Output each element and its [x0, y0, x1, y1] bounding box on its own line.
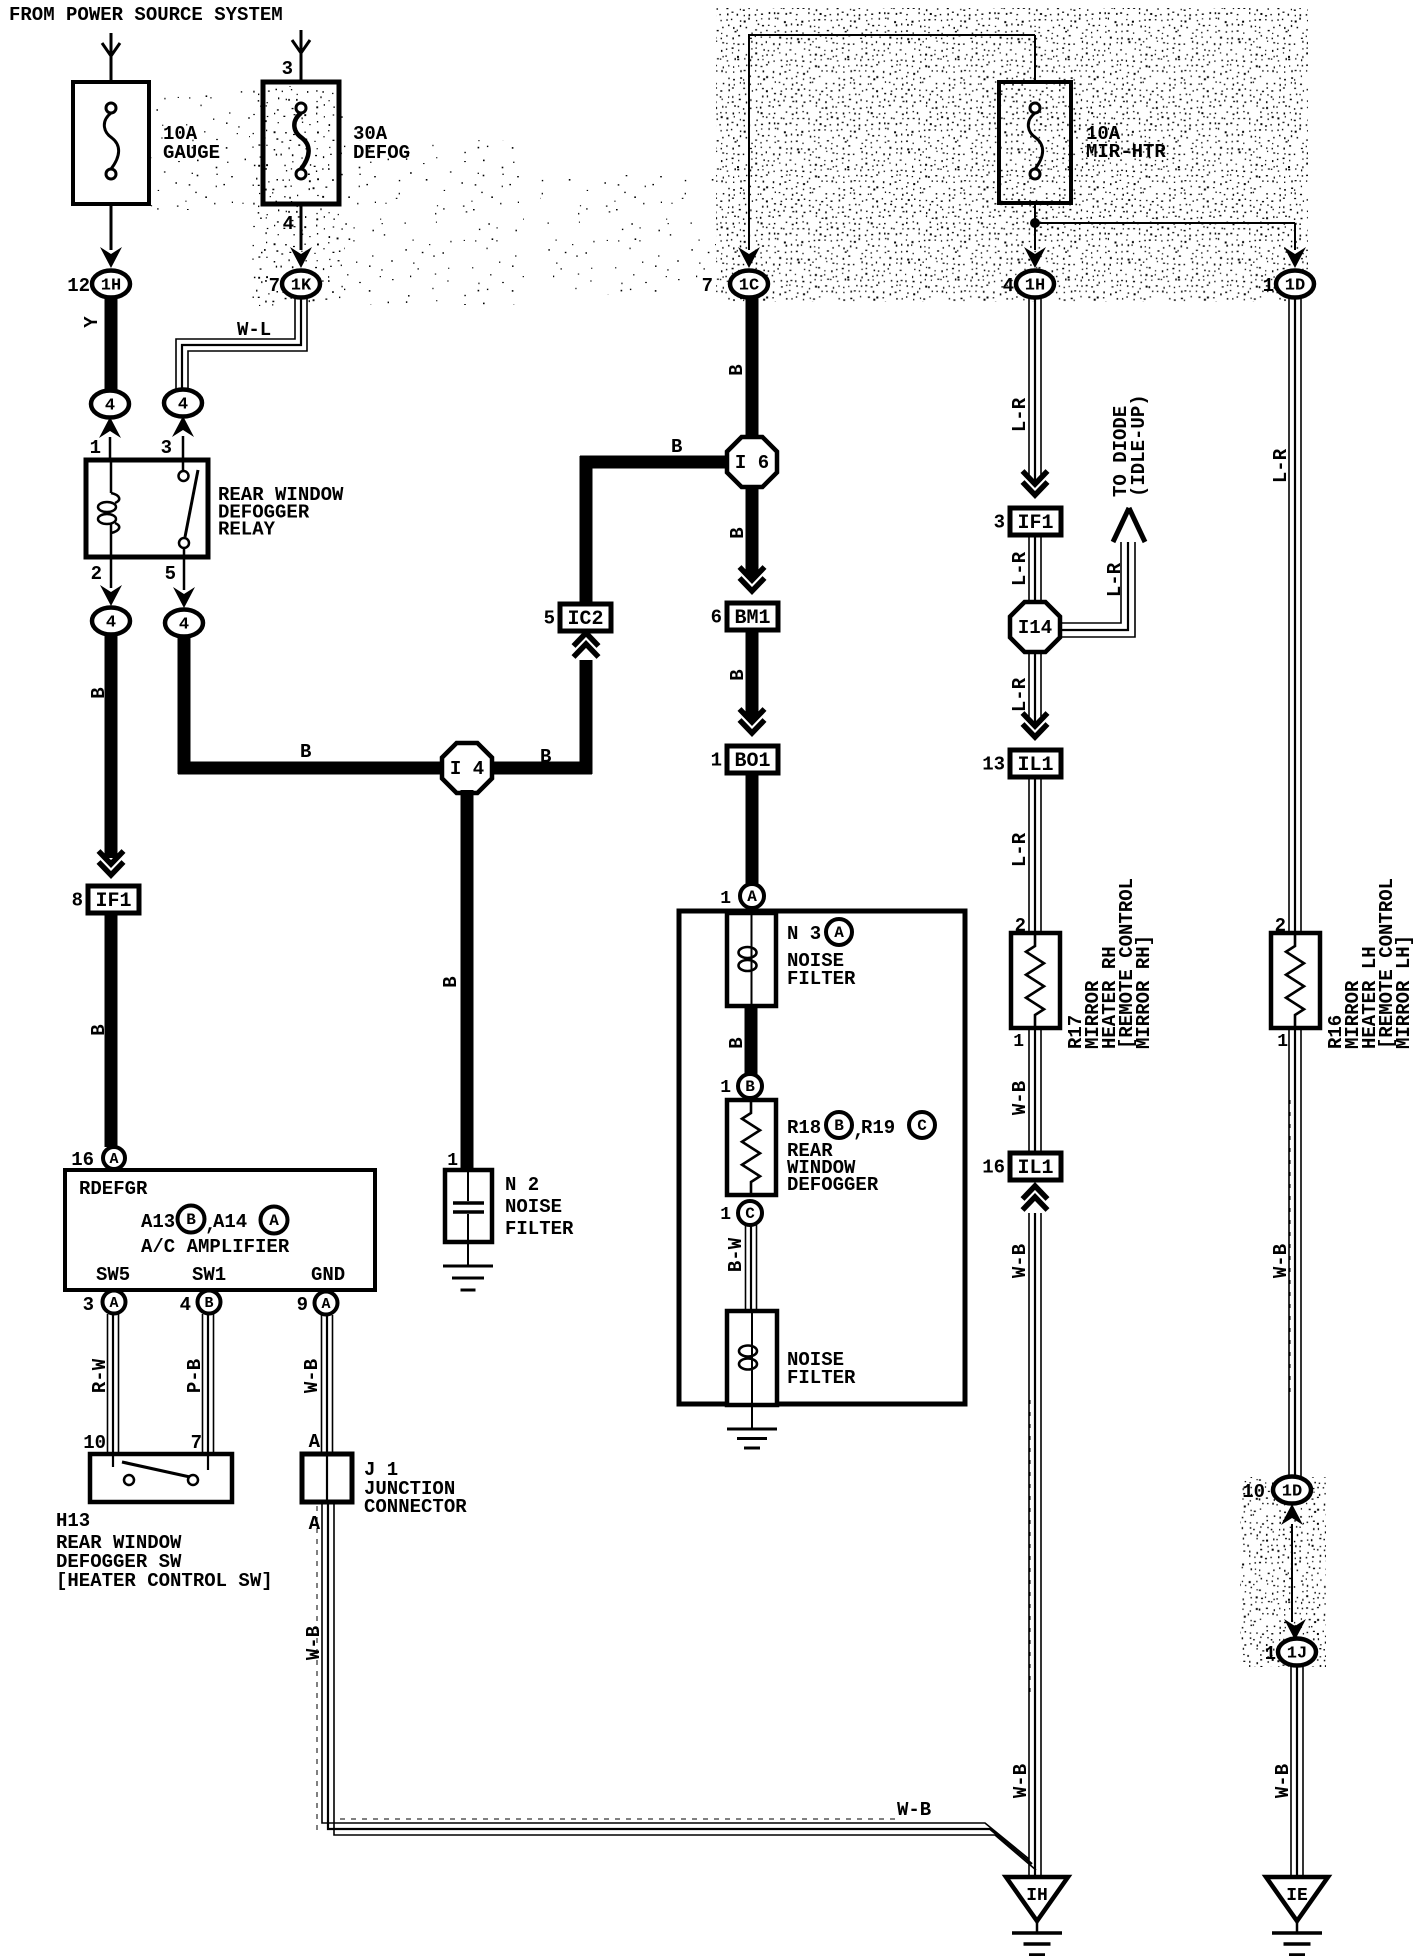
wire W-B from R16 to connector 1D — [1288, 1028, 1290, 1477]
svg-text:IL1: IL1 — [1017, 754, 1053, 777]
svg-text:1: 1 — [1265, 1643, 1276, 1665]
arrow into connector 1D — [1284, 247, 1306, 268]
noise filter 2 coil — [751, 1311, 753, 1405]
arrow into IL1 pin 13 — [1023, 724, 1048, 737]
wire L-R from 1D to mirror heater LH — [1288, 298, 1290, 933]
svg-text:W-B: W-B — [1009, 1081, 1031, 1115]
svg-text:B: B — [726, 364, 748, 375]
svg-text:FILTER: FILTER — [787, 968, 856, 990]
svg-text:B: B — [834, 1117, 844, 1135]
svg-text:L-R: L-R — [1009, 397, 1031, 432]
svg-text:MIRROR LH]: MIRROR LH] — [1393, 935, 1415, 1049]
arrow into connector 1K — [290, 247, 312, 268]
svg-text:BO1: BO1 — [734, 750, 770, 773]
svg-text:4: 4 — [178, 396, 188, 415]
arrow into IF1 pin 3 — [1023, 482, 1048, 495]
wire W-B from IL1-16 to ground IH — [1028, 1213, 1030, 1877]
svg-text:B: B — [726, 1037, 748, 1048]
svg-text:16: 16 — [71, 1149, 94, 1171]
wire fuse GAUGE to connector 1H — [110, 204, 113, 250]
junction dot — [1030, 218, 1040, 228]
arrow into connector 1H — [100, 247, 122, 268]
wire W-B from J1 to ground IH — [322, 1504, 1029, 1859]
arrow into connector 1C — [738, 247, 760, 268]
svg-text:W-B: W-B — [897, 1799, 931, 1821]
svg-text:A: A — [309, 1431, 321, 1453]
connector IL1 pin 13 — [1010, 750, 1061, 777]
svg-text:1C: 1C — [739, 277, 759, 296]
wire W-B from 1J to ground IE — [1290, 1665, 1292, 1877]
svg-text:IL1: IL1 — [1017, 1157, 1053, 1180]
svg-text:(IDLE-UP): (IDLE-UP) — [1128, 394, 1150, 497]
svg-text:A: A — [109, 1151, 118, 1168]
svg-text:H13: H13 — [56, 1510, 90, 1532]
wire fuse MIR-HTR to junction dot — [1034, 203, 1036, 223]
wire relay pin 2 to junction 4 — [110, 557, 113, 588]
svg-text:P-B: P-B — [184, 1359, 206, 1393]
svg-text:L-R: L-R — [1009, 832, 1031, 867]
svg-text:1D: 1D — [1282, 1483, 1302, 1502]
arrow into IC2 pin 5 — [574, 633, 599, 646]
stipple shading bottom-right connectors 1D/1J — [1240, 1477, 1326, 1667]
wire fuse DEFOG to connector 1K — [300, 204, 303, 250]
splice I14 — [1010, 602, 1060, 652]
wire B from IC2 to splice I6 — [580, 456, 593, 604]
svg-text:10: 10 — [1242, 1481, 1265, 1503]
svg-text:7: 7 — [191, 1432, 202, 1454]
svg-text:1H: 1H — [1025, 277, 1045, 296]
svg-text:W-B: W-B — [1010, 1764, 1032, 1798]
svg-text:W-B: W-B — [301, 1359, 323, 1393]
svg-text:1: 1 — [1013, 1032, 1024, 1052]
svg-text:R-W: R-W — [89, 1358, 111, 1393]
wire B from I6 up to connector 1C — [746, 297, 759, 436]
wire B from BM1 to BO1 — [746, 630, 759, 718]
connector IF1 pin 3 — [1010, 508, 1061, 535]
wire B from N3 to connector B — [745, 1006, 758, 1075]
svg-text:3: 3 — [994, 512, 1005, 534]
defogger resistor element — [742, 1100, 760, 1195]
svg-text:A: A — [109, 1295, 118, 1312]
svg-text:IH: IH — [1026, 1886, 1048, 1906]
wire B-W from C to noise filter — [745, 1225, 747, 1311]
svg-text:B: B — [727, 669, 749, 680]
R16 resistor element — [1286, 933, 1304, 1028]
wire Y from 1H to junction 4 — [105, 297, 118, 391]
svg-text:13: 13 — [982, 754, 1005, 776]
power feed arrow into fuse 10A GAUGE — [110, 33, 113, 84]
svg-text:C: C — [745, 1205, 755, 1223]
svg-text:B: B — [88, 687, 110, 698]
svg-text:7: 7 — [269, 275, 280, 297]
svg-text:FILTER: FILTER — [505, 1218, 574, 1240]
ground IH — [1006, 1877, 1068, 1921]
fuse 10A MIR-HTR — [999, 82, 1071, 203]
rear window defogger switch H13 box — [90, 1454, 232, 1502]
stipple shading around fuse 30A DEFOG — [252, 86, 344, 306]
svg-text:1: 1 — [711, 750, 722, 772]
arrow into connector 1J — [1284, 1619, 1306, 1640]
svg-text:R18: R18 — [787, 1117, 821, 1139]
svg-text:W-L: W-L — [237, 319, 271, 341]
svg-text:I 6: I 6 — [735, 452, 769, 474]
svg-text:B: B — [440, 976, 462, 987]
wire B from BO1 to noise filter N3 — [746, 773, 759, 884]
svg-text:I14: I14 — [1018, 617, 1052, 639]
wire R-W amplifier to defogger switch — [107, 1314, 109, 1454]
arrow into connector 1H (right) — [1024, 247, 1046, 268]
svg-text:NOISE: NOISE — [505, 1196, 562, 1218]
arrow into 4 left from relay pin 1 — [99, 417, 121, 438]
svg-text:RDEFGR: RDEFGR — [79, 1178, 148, 1200]
relay coil — [110, 460, 113, 493]
arrow into 4 right from relay pin 3 — [172, 416, 194, 437]
wire relay pin 5 to junction 4 — [183, 557, 186, 590]
svg-text:[HEATER CONTROL SW]: [HEATER CONTROL SW] — [56, 1570, 273, 1592]
svg-text:1: 1 — [720, 1078, 731, 1098]
fuse 10A GAUGE — [73, 82, 149, 204]
junction connector J1 box — [302, 1454, 352, 1502]
svg-text:B: B — [671, 436, 682, 458]
svg-text:W-B: W-B — [303, 1626, 325, 1660]
svg-text:5: 5 — [165, 563, 176, 585]
svg-text:FILTER: FILTER — [787, 1367, 856, 1389]
svg-text:1: 1 — [1277, 1032, 1288, 1052]
svg-text:B: B — [727, 527, 749, 538]
junction connector 4 (right) — [164, 390, 202, 417]
svg-text:SW5: SW5 — [96, 1264, 130, 1286]
A/C amplifier box — [65, 1170, 375, 1290]
connector BO1 pin 1 — [727, 746, 778, 773]
noise filter N3 box — [727, 913, 776, 1006]
svg-text:L-R: L-R — [1104, 562, 1126, 597]
wire from power region to 1C — [748, 36, 750, 250]
svg-text:B: B — [204, 1295, 213, 1312]
svg-text:B: B — [745, 1078, 755, 1096]
junction connector 4 (lower left) — [92, 608, 130, 635]
svg-text:A: A — [269, 1212, 279, 1230]
stipple shading top-right power region — [716, 8, 1308, 302]
wire junction dot to connector 1D — [1035, 222, 1295, 224]
wire L-R from IF1 to I14 — [1028, 535, 1030, 603]
svg-text:DEFOG: DEFOG — [353, 142, 410, 164]
arrow into BM1 pin 6 — [740, 578, 765, 591]
svg-text:1H: 1H — [101, 277, 121, 296]
connector A on defogger unit — [740, 884, 764, 908]
svg-text:L-R: L-R — [1009, 551, 1031, 586]
relay switch arm — [185, 470, 198, 537]
svg-text:W-B: W-B — [1270, 1244, 1292, 1278]
svg-text:IF1: IF1 — [1017, 512, 1053, 535]
svg-text:A: A — [747, 888, 757, 906]
wire into fuse 10A MIR-HTR — [1034, 35, 1036, 82]
svg-text:4: 4 — [105, 397, 115, 416]
svg-text:B: B — [186, 1211, 196, 1229]
ground from N2 — [467, 1242, 469, 1265]
junction connector 4 (lower right) — [165, 610, 203, 637]
connector IF1 pin 8 — [88, 886, 139, 913]
noise filter N2 box — [445, 1170, 492, 1242]
svg-text:16: 16 — [982, 1157, 1005, 1179]
svg-text:N 3: N 3 — [787, 923, 821, 945]
svg-text:CONNECTOR: CONNECTOR — [364, 1496, 467, 1518]
svg-text:1J: 1J — [1287, 1645, 1307, 1664]
svg-text:1K: 1K — [291, 277, 312, 296]
svg-text:A: A — [834, 924, 844, 942]
svg-text:4: 4 — [283, 213, 294, 235]
noise filter 2 box — [727, 1311, 777, 1405]
connector A at amplifier pin 16 — [103, 1147, 125, 1169]
connector B on defogger — [738, 1074, 762, 1098]
svg-text:IF1: IF1 — [95, 890, 131, 913]
svg-text:IC2: IC2 — [567, 608, 603, 631]
wire B from junction 4 to IF1 — [105, 634, 118, 858]
connector IC2 pin 5 — [560, 604, 611, 631]
R17 resistor element — [1026, 933, 1044, 1028]
arrow to diode (idle-up) — [1113, 508, 1129, 542]
svg-text:5: 5 — [544, 608, 555, 630]
svg-text:IE: IE — [1286, 1886, 1308, 1906]
svg-text:N 2: N 2 — [505, 1174, 539, 1196]
wire W-B from R17 to IL1 — [1028, 1028, 1030, 1153]
svg-text:4: 4 — [106, 614, 116, 633]
svg-text:9: 9 — [297, 1294, 308, 1316]
arrow into BO1 pin 1 — [740, 720, 765, 733]
svg-text:A/C AMPLIFIER: A/C AMPLIFIER — [141, 1236, 290, 1258]
svg-text:L-R: L-R — [1270, 448, 1292, 483]
svg-text:4: 4 — [1003, 275, 1014, 297]
rear window defogger unit box — [679, 911, 965, 1404]
ground from noise filter — [751, 1405, 753, 1428]
noise filter N3 coil — [751, 913, 753, 1006]
svg-text:3: 3 — [161, 437, 172, 459]
svg-text:3: 3 — [83, 1294, 94, 1316]
connector C on defogger — [738, 1201, 762, 1225]
relay switch contact top — [182, 460, 185, 471]
svg-text:1: 1 — [720, 889, 731, 909]
mirror heater RH resistor R17 box — [1011, 933, 1060, 1028]
svg-text:2: 2 — [91, 563, 102, 585]
svg-text:B: B — [300, 741, 311, 763]
svg-text:1: 1 — [1263, 275, 1274, 297]
wire L-R from IL1 to mirror heater RH — [1028, 777, 1030, 933]
wire B from I4 to IC2 — [490, 762, 592, 775]
svg-text:A14: A14 — [213, 1211, 247, 1233]
svg-text:6: 6 — [711, 607, 722, 629]
relay switch contact bottom — [179, 538, 189, 548]
svg-text:RELAY: RELAY — [218, 519, 276, 541]
arrow into IF1 pin 8 — [99, 862, 124, 875]
svg-text:GAUGE: GAUGE — [163, 142, 220, 164]
wire W-L from 1K to junction 4 — [176, 298, 295, 392]
svg-text:B-W: B-W — [725, 1237, 747, 1272]
svg-text:1: 1 — [90, 437, 101, 459]
svg-text:DEFOGGER: DEFOGGER — [787, 1174, 879, 1196]
wire L-R from 1H to IF1 — [1028, 298, 1030, 481]
svg-text:A: A — [321, 1296, 330, 1313]
power feed arrow into fuse 30A DEFOG — [300, 30, 303, 82]
wire junction dot to connector 1H — [1034, 223, 1036, 250]
wire 1D to 1J — [1291, 1524, 1293, 1622]
wire B from I4 to noise filter N2 — [461, 790, 474, 1170]
svg-text:4: 4 — [179, 616, 189, 635]
wire P-B amplifier to defogger switch — [202, 1314, 204, 1454]
wire L-R from I14 to IL1 — [1028, 652, 1030, 723]
wire B from junction 4 to splice I4 — [178, 636, 191, 774]
svg-text:FROM POWER SOURCE SYSTEM: FROM POWER SOURCE SYSTEM — [9, 4, 283, 26]
svg-text:A: A — [309, 1513, 321, 1535]
svg-text:1: 1 — [720, 1205, 731, 1225]
svg-text:R19: R19 — [861, 1117, 895, 1139]
svg-text:MIR-HTR: MIR-HTR — [1086, 141, 1166, 163]
splice I 4 — [442, 743, 492, 793]
svg-text:I 4: I 4 — [450, 758, 484, 780]
svg-text:C: C — [917, 1117, 927, 1135]
svg-text:4: 4 — [180, 1294, 191, 1316]
svg-text:7: 7 — [702, 275, 713, 297]
svg-text:W-B: W-B — [1009, 1244, 1031, 1278]
wire W-B amplifier to junction connector J1 — [321, 1315, 323, 1454]
svg-text:3: 3 — [282, 58, 293, 80]
wire B from I6 to BM1 — [746, 488, 759, 577]
junction connector 4 (left) — [91, 391, 129, 418]
svg-text:Y: Y — [81, 316, 103, 328]
fuse 30A DEFOG — [263, 82, 339, 204]
svg-text:GND: GND — [311, 1264, 345, 1286]
switch H13 contacts — [112, 1454, 114, 1467]
connector BM1 pin 6 — [727, 603, 778, 630]
mirror heater LH resistor R16 box — [1271, 933, 1320, 1028]
svg-text:A13: A13 — [141, 1211, 175, 1233]
rear window defogger resistor R18/R19 box — [727, 1100, 776, 1195]
svg-text:10: 10 — [83, 1432, 106, 1454]
svg-text:8: 8 — [72, 890, 83, 912]
rear window defogger relay box — [86, 460, 208, 557]
svg-text:SW1: SW1 — [192, 1264, 226, 1286]
capacitor symbol N2 — [467, 1170, 469, 1201]
splice I 6 — [727, 437, 777, 487]
svg-text:B: B — [88, 1024, 110, 1035]
connector IL1 pin 16 — [1010, 1153, 1061, 1180]
svg-text:MIRROR RH]: MIRROR RH] — [1133, 935, 1155, 1049]
arrow into 1D from below — [1281, 1504, 1303, 1525]
svg-text:BM1: BM1 — [734, 607, 770, 630]
svg-text:L-R: L-R — [1009, 677, 1031, 712]
arrow into IL1 pin 16 from below — [1023, 1186, 1048, 1199]
branch wire L-R from I14 to diode — [1060, 542, 1121, 623]
ground IE — [1266, 1877, 1328, 1921]
svg-text:1D: 1D — [1285, 277, 1305, 296]
svg-text:W-B: W-B — [1272, 1764, 1294, 1798]
svg-text:12: 12 — [67, 275, 90, 297]
wire B from IF1 to A/C amplifier — [105, 913, 118, 1147]
svg-text:B: B — [540, 746, 551, 768]
